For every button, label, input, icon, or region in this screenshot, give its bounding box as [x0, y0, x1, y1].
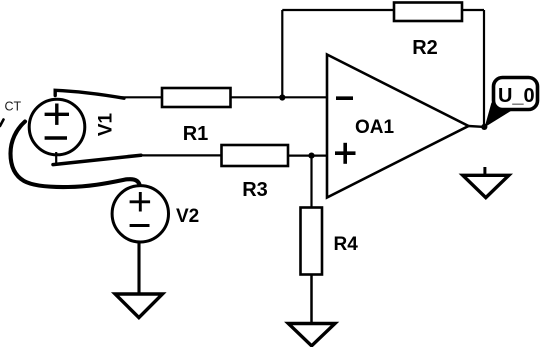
wire R4 to ground: [310, 275, 313, 325]
svg-text:V1: V1: [95, 112, 116, 136]
wire to R1: [121, 96, 163, 98]
hand-drawn pen stroke top (V1 top to R1 wire): [55, 90, 124, 98]
svg-text:U_0: U_0: [498, 85, 535, 107]
wire feedback left vertical: [281, 10, 283, 97]
wire to R3: [141, 154, 222, 156]
wire V1 bottom stub: [55, 152, 57, 164]
svg-text:CT: CT: [5, 100, 22, 114]
callout pointer U_0: [485, 103, 513, 128]
wire R3 to op-amp plus input: [288, 155, 327, 157]
hand-drawn tick at left edge: [0, 120, 4, 127]
op-amp minus input symbol: [336, 96, 353, 100]
wire feedback top horizontal: [282, 9, 484, 11]
wire op-amp output: [469, 125, 485, 128]
hand-drawn pen curve (V1 left looping down to V2 top): [11, 122, 140, 188]
junction dot on non-inverting input: [308, 153, 314, 159]
svg-text:R4: R4: [334, 234, 359, 255]
ground near output: [463, 175, 509, 197]
wire V2 to ground: [137, 242, 140, 295]
svg-text:R1: R1: [183, 123, 209, 145]
hand-drawn pen stroke bottom (V1 bottom to R3 wire): [53, 155, 141, 164]
junction dot on inverting input: [279, 94, 285, 100]
svg-text:OA1: OA1: [355, 117, 395, 138]
svg-text:R2: R2: [412, 37, 438, 59]
svg-text:R3: R3: [242, 179, 268, 201]
ground stub at output: [483, 167, 486, 176]
wire junction down to R4: [310, 156, 312, 208]
voltage source V2: [112, 186, 168, 242]
svg-text:V2: V2: [176, 206, 199, 227]
resistor R4: [301, 208, 323, 275]
ground under V2: [115, 294, 162, 318]
resistor R3: [222, 145, 289, 166]
callout box U_0: [494, 78, 538, 110]
ground under R4: [288, 324, 335, 346]
op-amp plus input symbol: [335, 151, 356, 155]
resistor R1: [162, 88, 231, 107]
voltage source V1: [29, 99, 85, 155]
wire feedback right vertical: [483, 10, 485, 127]
output node dot: [481, 124, 487, 130]
resistor R2: [394, 3, 462, 22]
wire R1 to op-amp minus input: [231, 96, 328, 98]
op-amp OA1: [327, 55, 469, 198]
